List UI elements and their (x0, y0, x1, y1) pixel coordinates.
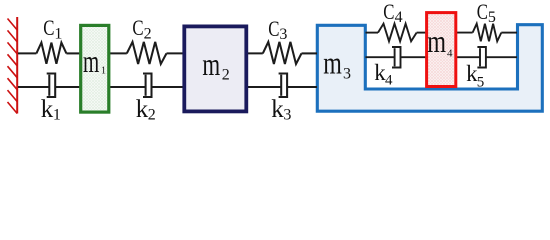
svg-text:2: 2 (144, 26, 152, 43)
svg-text:4: 4 (447, 48, 453, 60)
svg-text:1: 1 (101, 66, 106, 77)
svg-text:C: C (268, 16, 279, 41)
svg-text:k: k (41, 96, 54, 123)
svg-text:5: 5 (477, 74, 485, 90)
svg-text:C: C (43, 15, 54, 40)
svg-text:m: m (83, 44, 100, 79)
svg-text:C: C (383, 0, 394, 24)
svg-text:3: 3 (283, 107, 291, 124)
svg-text:4: 4 (385, 73, 393, 89)
svg-text:k: k (271, 96, 284, 123)
svg-text:m: m (323, 46, 342, 81)
svg-text:m: m (427, 24, 446, 59)
svg-text:3: 3 (279, 26, 287, 43)
svg-text:1: 1 (53, 107, 61, 124)
svg-text:2: 2 (222, 67, 230, 84)
svg-text:3: 3 (343, 66, 351, 83)
svg-text:1: 1 (54, 26, 62, 43)
svg-text:5: 5 (488, 9, 496, 26)
svg-text:C: C (132, 15, 143, 40)
svg-text:2: 2 (148, 107, 156, 124)
svg-text:4: 4 (395, 9, 403, 26)
svg-text:k: k (136, 96, 149, 123)
svg-text:m: m (202, 47, 220, 82)
svg-text:C: C (477, 0, 488, 24)
